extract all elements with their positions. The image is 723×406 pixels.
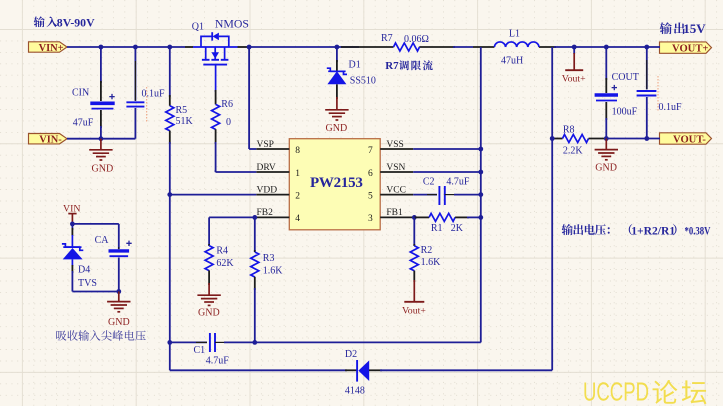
pin 5 VCC line: [380, 194, 413, 196]
pin 2 VDD line: [256, 194, 289, 196]
svg-text:D2: D2: [345, 349, 357, 360]
junction VOUT- R8 left: [550, 136, 555, 141]
svg-text:VSS: VSS: [386, 140, 403, 150]
wire bus x481: [480, 47, 482, 342]
junction VOUT- 0.1uF: [644, 136, 649, 141]
diode D4 TVS: [62, 224, 83, 292]
port VIN-: [29, 134, 68, 146]
svg-text:0.1uF: 0.1uF: [659, 102, 683, 113]
wire L1 right pin: [539, 46, 556, 48]
svg-text:8V-90V: 8V-90V: [57, 15, 95, 29]
port VIN+: [29, 42, 68, 54]
svg-text:VOUT-: VOUT-: [673, 135, 706, 146]
wire FB2 stub: [255, 216, 256, 218]
pin 8 VSP line: [256, 148, 289, 150]
title output 15V: [660, 21, 707, 36]
junction VDD R5: [167, 192, 172, 197]
wire Q1 drain pin: [185, 46, 193, 48]
svg-text:6: 6: [368, 169, 373, 179]
svg-text:*0.38V: *0.38V: [685, 224, 711, 237]
svg-text:4: 4: [295, 214, 300, 224]
wire VSN to bus: [413, 171, 481, 173]
diode D1 SS510: [327, 47, 347, 99]
wire L1 to VOUT+: [554, 46, 660, 48]
capacitor CA: [109, 241, 132, 292]
svg-text:D4: D4: [78, 265, 90, 276]
svg-text:0: 0: [226, 117, 231, 128]
wire R7 to L1: [453, 46, 473, 48]
svg-text:4148: 4148: [345, 386, 365, 397]
svg-text:51K: 51K: [176, 116, 194, 127]
resistor R4: [205, 244, 213, 285]
ground GND at COUT: [595, 139, 618, 160]
svg-text:GND: GND: [198, 307, 220, 318]
junction top rail C-0.1uF: [133, 45, 138, 50]
capacitor C2: [413, 186, 481, 205]
svg-text:1: 1: [295, 169, 300, 179]
svg-text:R7: R7: [385, 60, 399, 72]
svg-text:R3: R3: [263, 253, 275, 264]
svg-text:2K: 2K: [451, 223, 464, 234]
svg-text:100uF: 100uF: [612, 107, 638, 118]
capacitor 0.1uF output: [637, 47, 657, 139]
junction VIN stub: [70, 222, 75, 227]
wire VIN stub to CA: [72, 224, 118, 249]
svg-text:R4: R4: [216, 245, 228, 256]
svg-text:DRV: DRV: [257, 163, 276, 173]
marker orange input: [146, 87, 148, 122]
svg-text:1.6K: 1.6K: [421, 257, 442, 268]
wire VOUT- rail: [604, 138, 660, 140]
capacitor 0.1uF input: [126, 47, 144, 139]
wire VDD from R5: [170, 194, 256, 196]
svg-text:2: 2: [295, 191, 300, 201]
junction CA bottom: [116, 289, 121, 294]
wire VIN- rail: [67, 138, 135, 140]
junction top rail Vout+ stub: [572, 45, 577, 50]
svg-text:CIN: CIN: [72, 88, 89, 99]
wire D4 CA bottom: [72, 291, 118, 293]
svg-text:GND: GND: [326, 123, 348, 134]
svg-text:3: 3: [368, 214, 373, 224]
wire Q1 source pin: [238, 46, 250, 48]
junction top rail D1: [335, 45, 340, 50]
svg-text:TVS: TVS: [78, 278, 97, 289]
ground GND at CA: [107, 292, 130, 312]
junction C1 left: [167, 340, 172, 345]
svg-text:COUT: COUT: [612, 72, 639, 83]
svg-text:1.6K: 1.6K: [263, 265, 284, 276]
title input 8V-90V: [34, 15, 95, 29]
junction bus VCC: [478, 192, 483, 197]
svg-text:62K: 62K: [216, 258, 234, 269]
resistor R3: [251, 217, 259, 342]
svg-text:R6: R6: [221, 99, 233, 110]
wire bottom loop left: [170, 342, 347, 370]
svg-text:R8: R8: [563, 125, 575, 136]
pin 7 VSS line: [380, 148, 413, 150]
svg-text:L1: L1: [509, 29, 520, 40]
transistor Q1: [193, 32, 238, 92]
capacitor C1: [170, 333, 481, 352]
junction VOUT- COUT: [604, 136, 609, 141]
svg-text:0.1uF: 0.1uF: [142, 89, 166, 100]
watermark UCCPD forum: [583, 377, 706, 406]
wire R7 right pin: [419, 46, 455, 48]
svg-text:0.06Ω: 0.06Ω: [404, 34, 429, 45]
svg-text:4.7uF: 4.7uF: [446, 177, 470, 188]
wire VIN+ rail: [67, 46, 185, 48]
wire bottom loop right: [380, 139, 552, 371]
svg-text:NMOS: NMOS: [215, 16, 249, 30]
power Vout+ at R2: [404, 280, 424, 302]
pin 3 FB1 line: [380, 216, 413, 218]
svg-text:5: 5: [368, 191, 373, 201]
inductor L1: [494, 42, 539, 47]
junction top rail Q1 source: [247, 45, 252, 50]
junction VIN- CIN gnd: [99, 136, 104, 141]
svg-text:VSP: VSP: [257, 140, 274, 150]
svg-text:47uF: 47uF: [73, 117, 94, 128]
svg-text:R7: R7: [381, 33, 393, 44]
svg-text:15V: 15V: [683, 21, 706, 36]
junction C1 right: [252, 340, 257, 345]
svg-text:FB2: FB2: [257, 208, 274, 218]
svg-text:R5: R5: [176, 105, 188, 116]
capacitor COUT: [595, 47, 618, 139]
svg-text:7: 7: [368, 146, 373, 156]
svg-text:4.7uF: 4.7uF: [206, 356, 230, 367]
svg-text:GND: GND: [595, 163, 617, 174]
marker orange output: [657, 76, 659, 112]
junction top rail C-0.1uF out: [644, 45, 649, 50]
pin 4 FB2 line: [256, 216, 289, 218]
note output voltage formula: [562, 224, 711, 237]
svg-text:GND: GND: [108, 317, 130, 328]
junction bus VSN: [478, 170, 483, 175]
svg-text:Vout+: Vout+: [562, 73, 586, 84]
svg-text:8: 8: [295, 146, 300, 156]
resistor R8: [552, 135, 606, 143]
ground GND at R4: [197, 283, 220, 305]
svg-text:FB1: FB1: [386, 208, 403, 218]
svg-text:1+R2/R1: 1+R2/R1: [631, 224, 675, 237]
wire FB2 to R4: [209, 217, 255, 246]
junction top rail CIN: [99, 45, 104, 50]
svg-text:Vout+: Vout+: [402, 305, 426, 316]
diode D2 4148: [345, 360, 382, 382]
svg-text:PW2153: PW2153: [310, 175, 363, 191]
svg-text:C1: C1: [194, 345, 206, 356]
wire R5 column down: [169, 195, 171, 343]
wire DRV from R6: [216, 170, 257, 172]
svg-text:2.2K: 2.2K: [563, 146, 584, 157]
svg-text:R2: R2: [421, 245, 433, 256]
junction bus FB1: [478, 215, 483, 220]
ground GND at CIN: [89, 139, 112, 160]
port VOUT+: [660, 42, 712, 55]
svg-text:VOUT+: VOUT+: [672, 44, 708, 55]
svg-text:VDD: VDD: [257, 185, 278, 195]
junction FB1: [412, 215, 417, 220]
note absorb input spike: [56, 330, 145, 341]
resistor R7: [394, 43, 420, 51]
svg-text:VIN: VIN: [63, 203, 80, 214]
wire L1 left pin: [473, 46, 494, 48]
svg-text:VCC: VCC: [386, 185, 406, 195]
note R7 current limit: [385, 60, 433, 72]
svg-text:R1: R1: [431, 223, 443, 234]
resistor R1: [414, 213, 481, 221]
svg-text:CA: CA: [95, 235, 110, 246]
junction top rail R5: [167, 45, 172, 50]
power Vout+ top: [565, 47, 583, 70]
pin 1 DRV line: [256, 171, 289, 173]
svg-text:VIN+: VIN+: [39, 43, 64, 54]
pin 6 VSN line: [380, 171, 413, 173]
ground GND at D1: [325, 97, 348, 120]
junction FB2: [252, 215, 257, 220]
junction bus VSS: [478, 147, 483, 152]
op-amp U1 PW2153 body: [289, 139, 380, 230]
resistor R2: [410, 217, 418, 282]
wire VSP from Q1 source: [249, 47, 256, 149]
svg-text:VSN: VSN: [386, 163, 405, 173]
resistor R5: [166, 47, 174, 195]
junction top rail COUT: [604, 45, 609, 50]
svg-text:Q1: Q1: [192, 21, 204, 32]
power VIN net: [63, 203, 80, 224]
svg-text:UCCPD: UCCPD: [583, 377, 649, 406]
svg-text:D1: D1: [349, 59, 361, 70]
wire Q1 to D1 node: [249, 46, 359, 48]
wire R7 left pin: [341, 46, 394, 48]
svg-text:C2: C2: [423, 177, 435, 188]
svg-text:SS510: SS510: [350, 76, 376, 87]
wire VSS to bus: [413, 148, 481, 150]
svg-text:VIN-: VIN-: [39, 135, 62, 146]
svg-text:GND: GND: [92, 163, 114, 174]
wire x552 top drop: [551, 47, 553, 139]
port VOUT-: [660, 133, 712, 146]
resistor R6: [212, 90, 220, 172]
svg-text:47uH: 47uH: [501, 56, 523, 67]
capacitor CIN: [90, 47, 114, 139]
